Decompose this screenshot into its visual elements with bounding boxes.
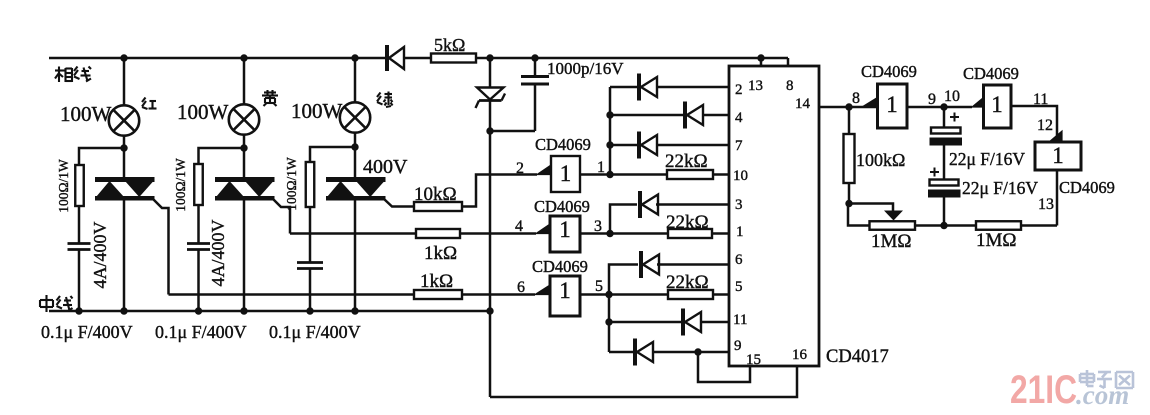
svg-text:CD4069: CD4069: [535, 135, 591, 154]
resistor 10k gate3: [414, 202, 462, 211]
wire pot to cap node: [915, 224, 944, 227]
svg-text:CD4069: CD4069: [963, 64, 1019, 83]
wire triac1 gate: [153, 199, 169, 295]
svg-text:6: 6: [735, 252, 743, 268]
wire common vertical: [489, 131, 492, 311]
svg-text:5: 5: [595, 278, 603, 295]
svg-text:1: 1: [991, 92, 1003, 117]
resistor 100k: [848, 107, 851, 134]
svg-text:7: 7: [735, 138, 743, 154]
diode to pin6: [639, 251, 643, 278]
inverter U2c CD4069: [1049, 131, 1062, 142]
capacitor snubber C2: [187, 242, 210, 245]
resistor 22k pin5: [668, 290, 713, 299]
wire lamp3 to triac3: [354, 132, 357, 177]
svg-text:0.1μ F/400V: 0.1μ F/400V: [41, 322, 133, 342]
wire pin16 ground return: [490, 366, 797, 397]
wire c2 to neutral: [197, 250, 200, 312]
node lamp2 top: [240, 54, 247, 61]
bus C vertical: [609, 265, 638, 353]
svg-text:1MΩ: 1MΩ: [871, 231, 912, 252]
wire r2 to c2: [197, 205, 200, 243]
resistor 5k: [431, 54, 476, 63]
diode to pin7: [637, 132, 641, 159]
capacitor 22uF upper: [943, 107, 946, 128]
triac 4A/400V branch2: [215, 177, 275, 182]
svg-text:12: 12: [1037, 117, 1053, 134]
svg-text:9: 9: [928, 91, 936, 108]
diode to pin9: [633, 339, 637, 366]
inverter U2a CD4069: [862, 98, 878, 108]
svg-text:0.1μ F/400V: 0.1μ F/400V: [269, 322, 361, 342]
wire branch1 jog: [79, 148, 124, 165]
svg-text:100W: 100W: [291, 99, 343, 123]
lamp red 100W: [109, 105, 139, 135]
svg-text:5kΩ: 5kΩ: [434, 35, 465, 55]
svg-text:13: 13: [1038, 196, 1054, 213]
svg-text:4A/400V: 4A/400V: [208, 220, 228, 287]
inverter U1c CD4069: [535, 285, 550, 295]
triac 4A/400V branch1: [95, 177, 155, 182]
svg-text:13: 13: [748, 78, 763, 94]
capacitor 22uF lower: [943, 146, 946, 180]
svg-text:CD4069: CD4069: [861, 62, 917, 81]
svg-text:1: 1: [560, 161, 572, 186]
wire inv6 out pin13: [1056, 170, 1059, 226]
svg-text:100Ω/1W: 100Ω/1W: [284, 157, 299, 211]
capacitor 1000p/16V: [534, 58, 537, 76]
svg-text:11: 11: [1033, 91, 1048, 108]
svg-text:22μ F/16V: 22μ F/16V: [962, 178, 1038, 198]
bus B vertical: [610, 205, 637, 234]
label zhongxian neutral-line: [40, 295, 73, 312]
svg-text:1: 1: [597, 159, 605, 176]
svg-text:21IC: 21IC: [1010, 368, 1077, 412]
svg-text:1kΩ: 1kΩ: [424, 243, 457, 264]
svg-text:22kΩ: 22kΩ: [665, 151, 708, 172]
svg-text:100kΩ: 100kΩ: [856, 150, 905, 170]
triac 400V branch3: [326, 177, 386, 182]
svg-text:400V: 400V: [363, 156, 408, 178]
wire pin6 line: [657, 263, 729, 266]
svg-text:1: 1: [559, 217, 571, 242]
wire branch2 jog: [199, 148, 245, 164]
wire pin3 line: [656, 203, 729, 206]
resistor 1M right: [976, 221, 1021, 230]
lamp green 100W: [340, 102, 370, 132]
wire 100k to pot: [848, 204, 893, 212]
svg-text:10: 10: [733, 168, 748, 184]
wire 1k to inv2 input: [460, 232, 536, 235]
capacitor snubber C3: [297, 261, 323, 264]
bus A vertical: [609, 87, 612, 175]
svg-text:10: 10: [944, 88, 960, 105]
wire c3 to neutral: [309, 269, 312, 312]
wire inv5 out pin11: [1011, 106, 1057, 142]
wire zener to common: [489, 99, 492, 131]
svg-text:1MΩ: 1MΩ: [976, 230, 1017, 251]
svg-text:.com: .com: [1076, 380, 1129, 410]
svg-text:3: 3: [594, 218, 602, 235]
svg-text:6: 6: [517, 279, 525, 296]
potentiometer 1M body: [870, 221, 916, 230]
resistor 100ohm-1W branch2: [194, 164, 203, 205]
wire lamp2 to triac2: [243, 134, 246, 177]
wire pin14 to node8: [819, 106, 877, 109]
wire pin9 line: [609, 351, 729, 354]
label lv green: [377, 92, 393, 108]
wire triac3 gate: [384, 199, 414, 207]
svg-text:9: 9: [734, 338, 742, 354]
wire r3 to c3: [309, 207, 312, 262]
wire triac2 gate: [273, 199, 290, 234]
svg-text:3: 3: [735, 197, 743, 213]
zener diode VD: [477, 88, 504, 100]
node zener top: [486, 54, 493, 61]
wire gate1 line: [169, 293, 415, 296]
svg-text:CD4069: CD4069: [532, 257, 588, 276]
svg-text:22μ F/16V: 22μ F/16V: [949, 149, 1025, 169]
wire triac2 to neutral: [243, 200, 246, 311]
diode to pin11: [681, 309, 685, 336]
svg-text:CD4017: CD4017: [826, 347, 889, 367]
svg-text:1000p/16V: 1000p/16V: [547, 59, 624, 78]
watermark dianziwang: [1080, 370, 1133, 388]
diode to pin3: [638, 191, 642, 218]
svg-text:5: 5: [735, 279, 743, 295]
wire pot left leg: [848, 204, 870, 226]
resistor 22k pin1: [668, 229, 712, 238]
wire cap node to 1M: [944, 224, 976, 227]
svg-text:2: 2: [735, 82, 743, 98]
wire neutral rail (zhongxian): [49, 310, 490, 313]
svg-text:CD4069: CD4069: [534, 197, 590, 216]
wire r1 to c1: [78, 206, 81, 243]
svg-text:15: 15: [746, 352, 761, 368]
svg-text:0.1μ F/400V: 0.1μ F/400V: [155, 322, 247, 342]
lamp yellow 100W: [229, 104, 259, 134]
node lamp1 top: [120, 54, 127, 61]
diode to pin2: [637, 74, 641, 101]
wire inv3 out: [580, 293, 609, 296]
resistor 100ohm-1W branch3: [306, 162, 315, 207]
wire pin4 line: [610, 114, 729, 117]
svg-text:100W: 100W: [177, 100, 229, 124]
svg-text:16: 16: [792, 347, 808, 363]
wire pin5 line: [609, 293, 729, 296]
svg-text:8: 8: [786, 78, 794, 94]
resistor 22k pin10: [667, 170, 713, 179]
svg-text:4A/400V: 4A/400V: [90, 222, 110, 289]
node cap1000p top: [531, 54, 538, 61]
svg-text:14: 14: [795, 96, 811, 112]
wire pin10 line: [610, 173, 729, 176]
wire 1M to pin13: [1021, 224, 1057, 227]
capacitor snubber C1: [68, 242, 91, 245]
label hong red: [142, 98, 157, 110]
wire lamp3 stem: [354, 58, 357, 103]
resistor 1k gate2: [416, 229, 460, 238]
svg-text:100Ω/1W: 100Ω/1W: [56, 159, 71, 213]
wire 1k to inv3 input: [462, 293, 535, 296]
wire 10k to inv1 input: [462, 175, 537, 207]
diode D1 on phase rail: [385, 45, 389, 71]
wire triac3 to neutral: [354, 200, 357, 311]
diode to pin4: [683, 102, 687, 129]
svg-text:100W: 100W: [60, 102, 112, 126]
resistor 100ohm-1W branch1: [75, 165, 84, 206]
wire inv2 out: [580, 232, 610, 235]
svg-text:4: 4: [735, 110, 743, 126]
wire supply to pins 13+8: [476, 57, 788, 60]
svg-text:1: 1: [886, 92, 898, 117]
svg-text:8: 8: [852, 90, 860, 107]
svg-text:11: 11: [733, 312, 747, 328]
wire pin15 loop: [698, 352, 750, 382]
svg-text:10kΩ: 10kΩ: [414, 184, 457, 205]
node lamp3 top: [351, 54, 358, 61]
svg-text:1kΩ: 1kΩ: [420, 271, 453, 292]
wire gate2 line: [290, 232, 416, 235]
label huang yellow: [262, 90, 278, 106]
wire cap to bottom rail: [943, 198, 946, 226]
wire lamp1 to triac1: [123, 135, 126, 177]
svg-text:4: 4: [515, 218, 523, 235]
wire inv4 out to inv5: [907, 106, 972, 109]
wire inv1 out: [580, 173, 610, 176]
svg-text:2: 2: [516, 160, 524, 177]
inverter U2b CD4069: [972, 98, 984, 108]
inverter U1a CD4069: [537, 165, 551, 175]
svg-text:CD4069: CD4069: [1059, 178, 1115, 197]
wire pin1 line: [610, 232, 729, 235]
potentiometer 1M arrow: [884, 211, 903, 221]
wire top phase rail (xiangxian): [49, 57, 385, 60]
wire pin11 line: [609, 321, 729, 324]
resistor 1k gate1: [414, 290, 462, 299]
wire branch3 jog: [310, 147, 355, 162]
svg-text:100Ω/1W: 100Ω/1W: [173, 158, 188, 212]
wire common jog to cap: [490, 130, 535, 133]
wire pin2 line: [610, 86, 729, 89]
inverter U1b CD4069: [536, 224, 550, 234]
wire triac1 to neutral: [123, 200, 126, 311]
label xiangxian phase-line: [55, 67, 91, 83]
wire lamp2 stem: [243, 58, 246, 105]
wire c1 to neutral: [78, 250, 81, 312]
svg-text:22kΩ: 22kΩ: [666, 212, 709, 233]
wire pin7 line: [610, 144, 729, 147]
node pin9 tap: [694, 348, 701, 355]
wire lamp1 stem: [123, 58, 126, 106]
svg-text:1: 1: [559, 278, 571, 303]
svg-text:1: 1: [736, 224, 744, 240]
node busA pin7: [606, 141, 613, 148]
IC CD4017 box: [729, 66, 819, 366]
svg-text:22kΩ: 22kΩ: [666, 272, 709, 293]
node busA pin4: [606, 111, 613, 118]
svg-text:1: 1: [1052, 143, 1064, 168]
